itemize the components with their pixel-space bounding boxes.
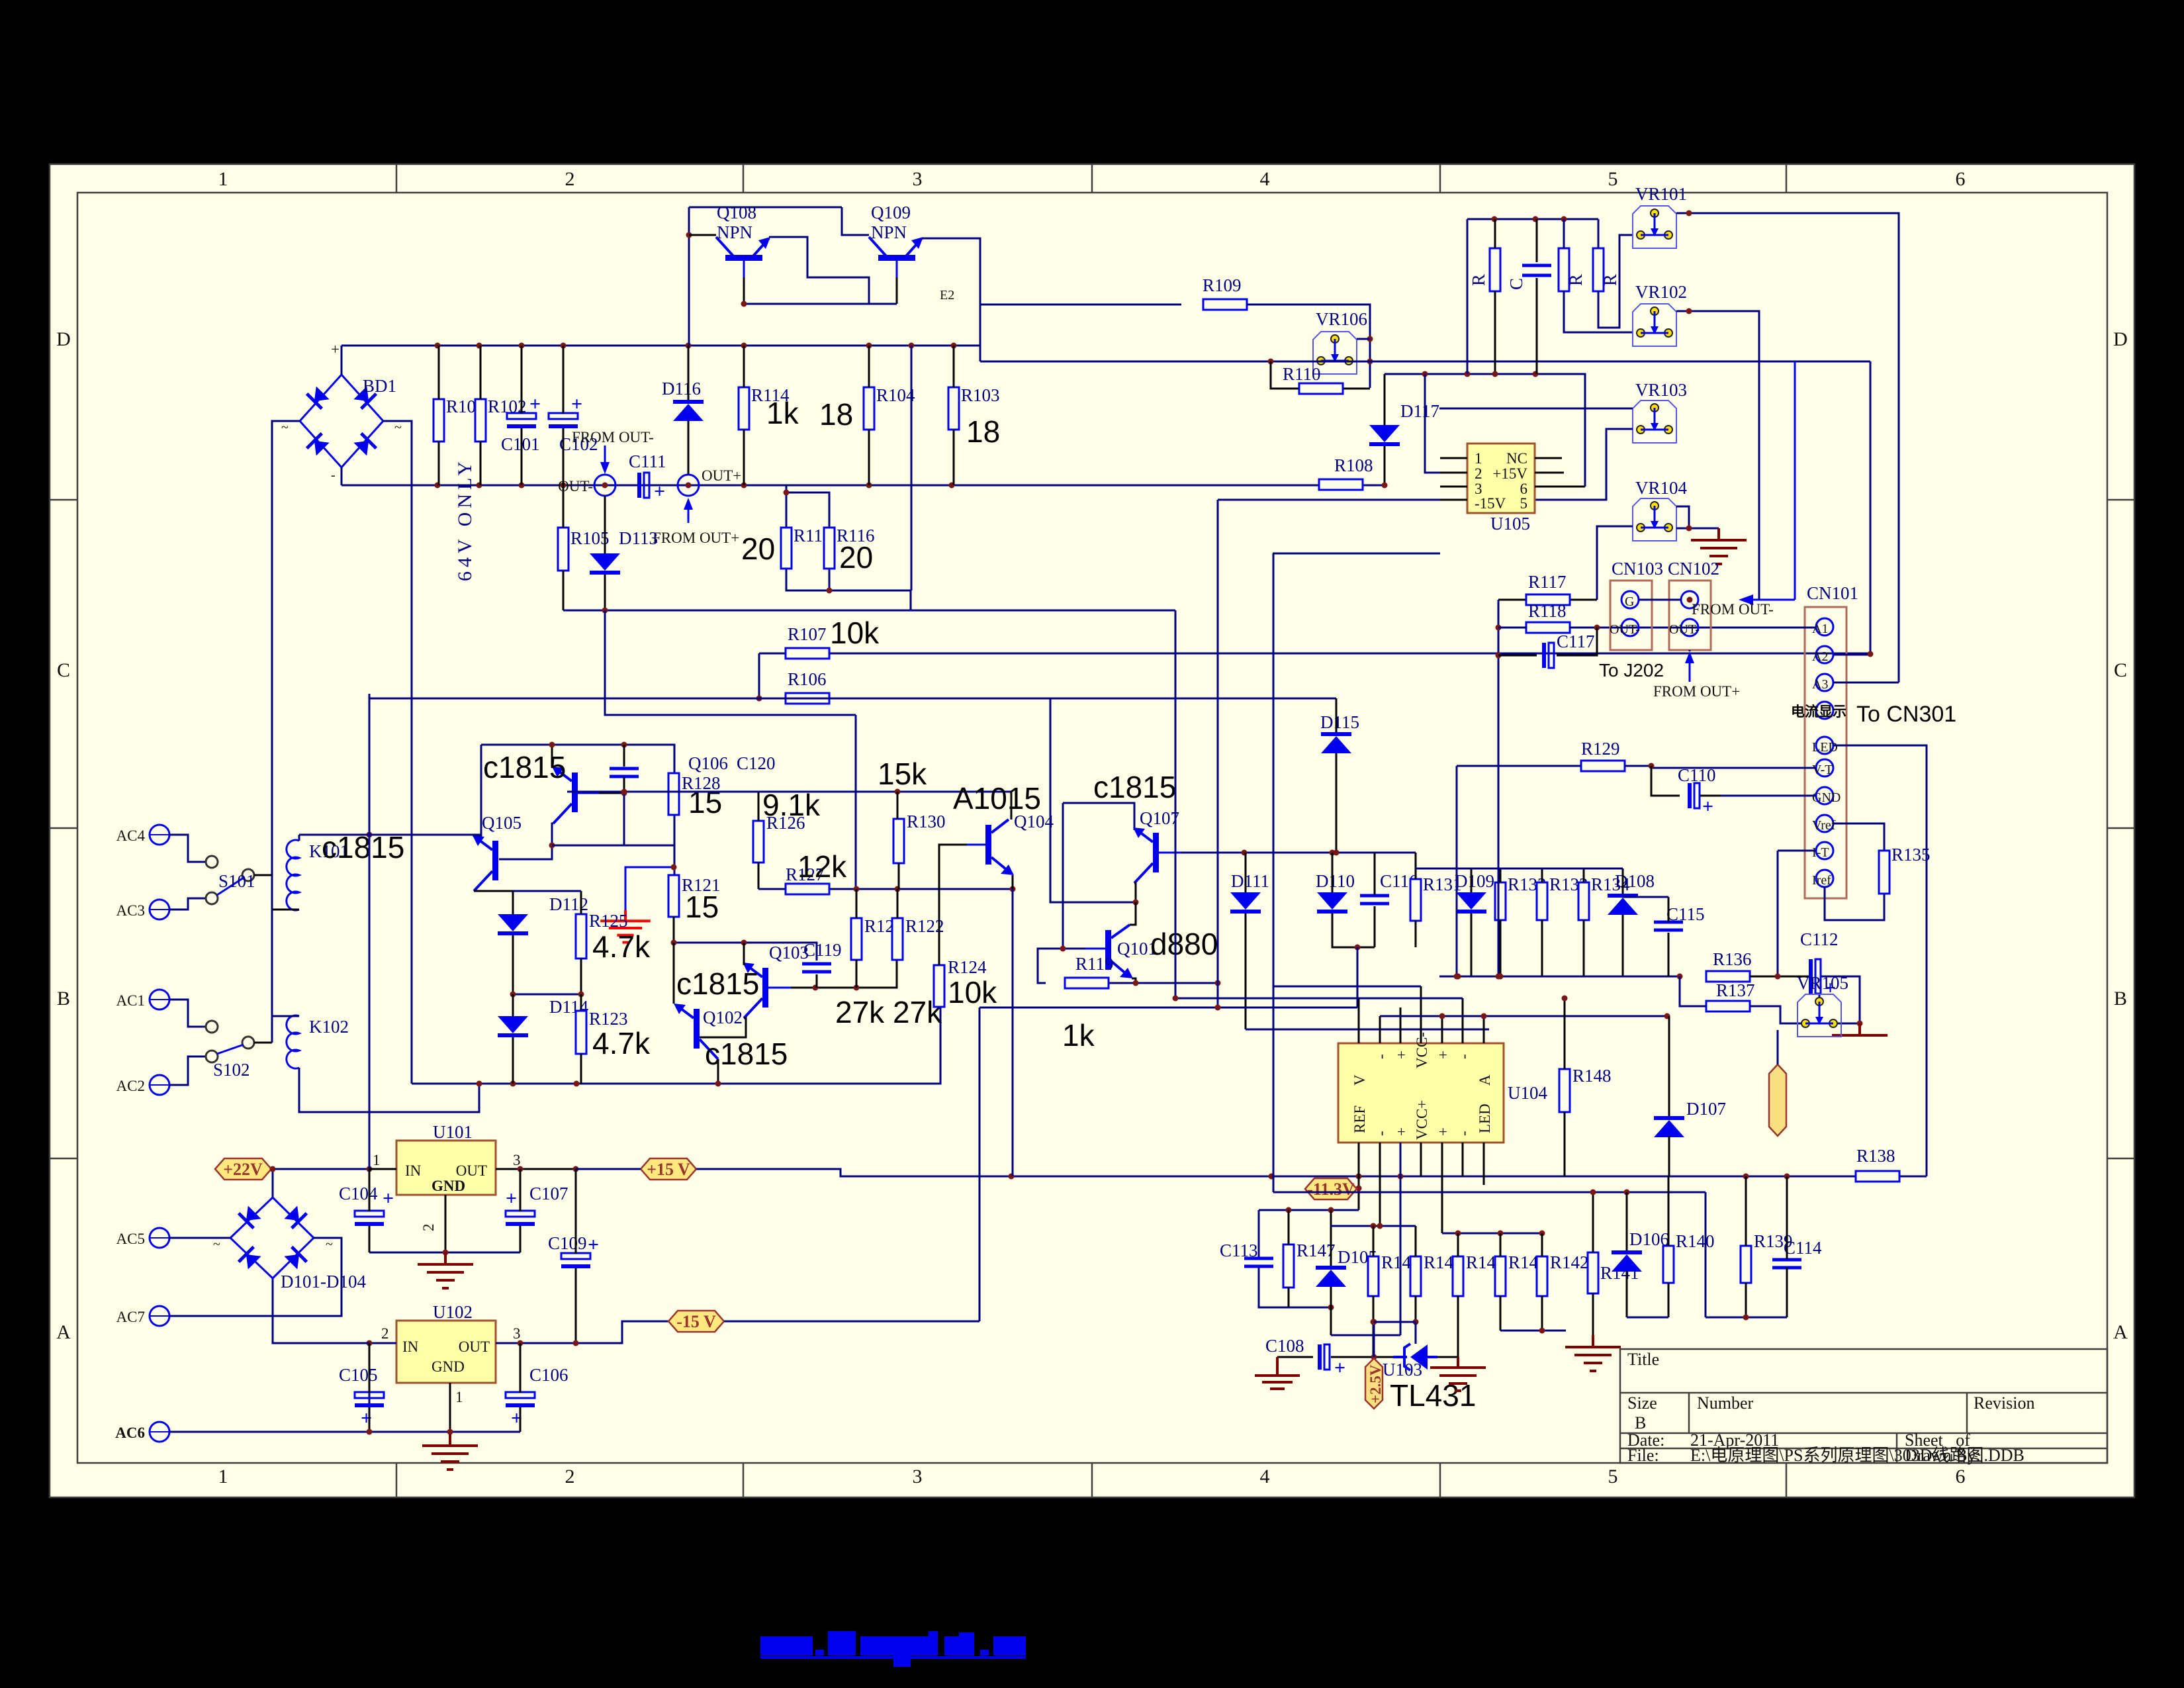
resistor R122 [892,916,944,960]
wire Q108 base down [743,277,745,304]
wire C106 leads [520,1343,522,1432]
svg-text:c1815: c1815 [483,750,566,784]
svg-text:File:: File: [1627,1446,1659,1465]
svg-text:Q102: Q102 [703,1008,743,1027]
wire D106 leads [1626,1192,1628,1317]
port AC3 [150,900,169,919]
capacitor C108 [1265,1336,1345,1379]
junction [895,886,901,892]
wire cn102 down [1689,650,1691,651]
svg-text:6: 6 [1956,1466,1966,1487]
junction [854,985,860,991]
junction [1561,216,1567,222]
resistor R129 [1581,739,1625,771]
svg-text:R124: R124 [948,957,987,977]
svg-text:Q108: Q108 [717,203,756,222]
svg-text:C111: C111 [629,451,666,471]
wire R140 leads [1668,1176,1670,1317]
svg-text:AC1: AC1 [116,992,145,1009]
junction [1539,1328,1545,1334]
wire y1277 [552,793,674,875]
wire C108 gnd wire [1277,1356,1313,1358]
wire C109 leads [575,1169,577,1343]
wire VR106 top to col [1357,338,1370,340]
junction [715,1081,721,1087]
D101-D104 arm diodes [239,1205,307,1270]
junction [519,343,525,349]
svg-text:5: 5 [1608,1466,1618,1487]
svg-text:R129: R129 [1581,739,1620,759]
junction [1496,974,1502,980]
wire Iref link [1825,887,1884,920]
border frame outer [50,164,2134,1497]
wire Q107 base bus [1181,852,1416,854]
wire TL431 anode [1437,1357,1458,1365]
svg-text:C106: C106 [529,1365,569,1385]
capacitor C115 [1654,904,1705,930]
svg-text:To CN301: To CN301 [1856,702,1956,727]
frame column ticks [50,164,2134,1497]
junction [1498,974,1504,980]
junction [1743,1315,1749,1321]
junction [1687,597,1693,603]
svg-text:D: D [56,328,71,350]
junction [270,1166,276,1172]
svg-text:-15V: -15V [1475,495,1506,512]
junction [1009,1174,1015,1180]
wire R147 loop top [1259,1210,1359,1307]
CN101 pin GND [1816,787,1833,804]
junction [1010,886,1016,892]
svg-text:D110: D110 [1316,871,1355,891]
junction [1215,980,1221,986]
svg-text:C119: C119 [803,940,842,960]
junction [510,992,516,998]
svg-text:A2: A2 [1812,649,1828,664]
wire Q108 collector [689,234,716,236]
wire Q107 coll down [1134,883,1136,902]
diode D117 [1369,401,1439,446]
svg-text:C120: C120 [737,753,776,773]
svg-text:R135: R135 [1891,845,1931,865]
junction [518,1340,523,1346]
capacitor C111 [629,451,666,502]
shunt reference U103 TL431 [1393,1344,1437,1370]
wire R122 top [897,889,899,918]
junction [561,343,567,349]
junction [549,843,555,849]
wire Q105 emitter up [473,745,481,835]
wire R147 loop bottom [1289,1307,1331,1309]
junction [1492,216,1498,222]
wire R142 leads [1541,1233,1543,1331]
resistor R144 [1453,1252,1505,1296]
wire y1852 net [1331,1225,1416,1227]
svg-text:C: C [2114,659,2127,681]
resistor R105 [558,528,610,571]
diode D106 [1612,1229,1669,1272]
wire R130 leads [897,792,899,889]
wire U105 left stubs [1440,458,1467,500]
svg-text:Vref: Vref [1812,818,1836,833]
resistor R126 [753,813,805,863]
wire K102 wiring [272,1016,479,1112]
FROM OUT+ arrow [684,498,693,523]
svg-text:+: + [1393,1127,1410,1136]
svg-text:+: + [331,341,340,357]
resistor R132 [1495,874,1547,920]
junction [671,940,677,946]
junction [602,483,608,489]
svg-text:A: A [56,1321,71,1343]
wire C116 col down [1357,947,1359,1008]
wire Q107 box [1063,803,1134,949]
wire R137 wiring [1680,976,1801,1023]
capacitor C106 [506,1365,569,1429]
transistor Q109 [869,237,923,277]
svg-text:VCC+: VCC+ [1414,1100,1430,1140]
junction [951,343,957,349]
svg-text:R109: R109 [1203,275,1242,295]
IC U101 [396,1122,496,1195]
svg-text:Size: Size [1627,1393,1657,1413]
wire R105-D113 bottom [563,610,1175,612]
wire y1424 [674,943,817,961]
junction [756,696,762,702]
wire D114 down [512,1037,514,1084]
wire bridge - to bottom rail [341,467,343,485]
wire R123 down [580,1054,582,1084]
port OUT- [594,475,615,496]
svg-text:2: 2 [565,168,575,190]
wire y1863 net [1442,1233,1542,1235]
wire R145 leads [1415,1226,1417,1344]
svg-text:AC4: AC4 [116,827,146,844]
wire R103 leads [953,346,955,485]
svg-text:+: + [506,1188,517,1209]
junction [671,865,677,870]
wire y1801 net [1273,1192,1706,1194]
svg-text:C115: C115 [1666,904,1705,924]
svg-text:2: 2 [381,1325,389,1342]
junction [1356,1186,1362,1192]
potentiometer VR104 [1633,478,1688,541]
junction [477,1081,482,1087]
junction [1334,850,1340,856]
resistor R top1 [1490,248,1500,291]
svg-text:-: - [1455,1131,1472,1136]
junction [949,483,955,489]
diode D116 [662,379,704,421]
capacitor C119 [802,940,842,972]
transistor Q107 [1133,827,1181,883]
svg-text:C: C [57,659,70,681]
ground [418,1252,473,1288]
svg-text:VR102: VR102 [1635,282,1687,302]
svg-text:1k: 1k [766,396,799,430]
junction [1377,1223,1383,1229]
svg-text:S101: S101 [218,871,255,891]
junction [686,483,692,489]
wire R109 right [1247,305,1370,388]
wire Q101 base [1038,949,1085,983]
wire R120 leads [856,889,858,988]
junction [367,1429,373,1435]
svg-text:1: 1 [1475,450,1482,467]
wire Q109 base down [896,277,898,304]
wire U102 out [496,1321,668,1343]
wire D117 up [1384,374,1386,425]
potentiometer VR105 [1797,973,1848,1037]
junction [1173,996,1179,1002]
wire R148 leads [1564,998,1566,1176]
svg-text:4: 4 [1260,168,1270,190]
wire bottom loops [1331,1143,1566,1335]
junction [621,789,627,795]
svg-text:C117: C117 [1557,632,1595,651]
junction [1533,216,1539,222]
junction [1355,945,1361,951]
wire G link [1639,599,1681,601]
svg-text:~: ~ [213,1237,220,1252]
junction [1455,974,1461,980]
svg-text:3: 3 [913,168,923,190]
FROM OUT- arrow right [1739,361,1795,605]
wire col2201 [1456,766,1458,976]
svg-text:NC: NC [1506,450,1527,467]
capacitor C109 [548,1233,599,1268]
svg-text:c1815: c1815 [1093,770,1176,804]
svg-text:-: - [1373,1054,1389,1059]
wire K101 bottom [272,909,299,911]
svg-text:C101: C101 [501,434,540,454]
bridge rectifier D101-D104 [230,1197,314,1278]
transistor Q102 [674,1004,718,1059]
ground at C108 [1255,1357,1300,1389]
resistor R118 [1526,601,1570,633]
svg-text:U102: U102 [433,1302,473,1322]
wire R104 leads [868,346,870,485]
svg-text:REF: REF [1351,1105,1368,1133]
port AC7 [150,1306,169,1326]
wire U104 top net1 [1175,998,1463,1000]
svg-text:B: B [57,988,70,1009]
svg-text:OUT: OUT [456,1162,487,1179]
BD1 arm diodes [307,385,377,457]
ground at VR105 [1832,1023,1888,1035]
junction [1371,1319,1377,1325]
wire y1125 [481,745,674,773]
svg-text:3: 3 [913,1466,923,1487]
junction [1686,308,1692,314]
wire A3 link [1833,682,1899,684]
wire U105 right stubs [1535,458,1585,487]
junction [573,1340,579,1346]
resistor R102 [475,397,527,442]
inductor K102 [287,1015,349,1068]
junction [1686,211,1692,216]
svg-text:2: 2 [420,1224,437,1232]
svg-text:FROM OUT-: FROM OUT- [572,429,654,445]
wire R106 corner down [369,694,371,835]
junction [686,343,692,349]
junction [866,483,872,489]
IC U105 [1467,444,1535,534]
port AC5 [150,1228,169,1248]
junction [573,1166,579,1172]
junction [1286,1207,1292,1213]
svg-text:D101-D104: D101-D104 [281,1272,366,1291]
svg-text:d880: d880 [1150,927,1218,961]
svg-text:R117: R117 [1528,572,1567,592]
svg-text:Q103: Q103 [769,943,809,962]
junction [1269,1174,1275,1180]
svg-text:IN: IN [405,1162,422,1179]
resistor R141 [1588,1252,1639,1293]
wire R105 leads [563,485,565,610]
wire C107 leads [520,1169,522,1252]
capacitor C114 [1772,1238,1822,1268]
wire bottom bus [412,1007,940,1084]
resistor R137 [1706,980,1755,1011]
svg-text:-: - [331,468,336,483]
junction [741,483,747,489]
ground [1691,528,1747,564]
svg-text:AC2: AC2 [116,1078,145,1094]
junction [741,940,747,946]
svg-text:18: 18 [819,397,853,432]
wire col2153 down [1425,374,1467,473]
svg-text:D109: D109 [1455,871,1494,891]
wire y1555 [1246,1029,1489,1031]
junction [1743,1174,1749,1180]
junction [447,1429,453,1435]
wire left cluster mid bus [513,891,581,994]
wire Q103 emitter up [743,943,745,965]
resistor R133 [1537,874,1588,920]
svg-text:Title: Title [1627,1350,1659,1369]
junction [1677,974,1683,980]
resistor R121 [668,875,721,917]
CN102 pin OUT- [1681,619,1698,636]
junction [549,742,555,748]
junction [866,343,872,349]
capacitor C101 [501,393,541,454]
junction [367,1340,373,1346]
svg-text:4.7k: 4.7k [592,929,651,964]
svg-text:15: 15 [688,785,722,820]
svg-text:+: + [588,1234,599,1256]
wire E2 to R109 [980,304,1181,306]
wire AC2 to S102 [169,1056,206,1085]
net flag +2.5V vertical [1365,1358,1384,1409]
svg-text:GND: GND [432,1178,465,1194]
svg-text:VR105: VR105 [1797,973,1848,993]
svg-text:D115: D115 [1320,712,1359,732]
resistor R106 [786,669,829,704]
svg-text:R140: R140 [1676,1231,1715,1251]
wire +15V rail [696,1169,1927,1176]
wire Q103 coll down [699,1018,746,1037]
wire U101 in [369,1168,396,1170]
junction [909,343,915,349]
svg-text:K102: K102 [309,1017,349,1037]
wire Q106 emitter up [551,745,553,767]
svg-text:Drawn By:: Drawn By: [1905,1446,1981,1465]
svg-text:3: 3 [513,1325,521,1342]
wire U104 top net2 [1380,1015,1669,1017]
resistor R131 [1410,874,1462,921]
yellow vertical flag [1769,1064,1786,1136]
resistor R115 [781,526,832,569]
wire S101 common [254,874,272,876]
CN103 pin G [1621,591,1639,608]
wire C110 right [1700,795,1721,797]
resistor R146 [1368,1252,1420,1296]
svg-text:20: 20 [741,532,775,566]
wire Q104 emitter feed [1012,889,1014,1176]
wire LED link [1833,745,1927,1176]
svg-text:1: 1 [373,1152,381,1168]
svg-text:OUT+: OUT+ [702,467,741,484]
border frame inner [77,193,2107,1463]
svg-text:B: B [1635,1413,1646,1432]
wire AC3 to S101 [169,898,206,910]
port AC4 [150,825,169,845]
wire col 1377 down [911,346,913,590]
resistor R101 [433,397,485,442]
wire VR103 bl to U105 [1535,429,1633,500]
diode D112 [498,894,588,935]
svg-text:18: 18 [966,414,1000,449]
resistor R134 [1578,874,1630,920]
svg-text:+: + [1393,1051,1410,1059]
wire bridge2 out to U102 [273,1278,369,1343]
wire R124 top [938,943,940,965]
diode D105 [1316,1247,1377,1287]
transistor Q108 [716,237,770,277]
wire R129 left [1457,765,1651,767]
wire y1475 bus [1439,976,1787,978]
svg-text:OUT-: OUT- [1669,622,1700,637]
resistor R107 [786,624,829,659]
wire R136 to C112 [1750,976,1809,978]
svg-text:C109: C109 [548,1233,587,1253]
junction [510,1081,516,1087]
wire rail to R108 [1384,445,1386,485]
junction [1367,336,1373,342]
svg-text:BD1: BD1 [363,376,396,396]
junction [1481,1013,1487,1019]
diode D109 [1455,871,1494,914]
svg-text:2: 2 [565,1466,575,1487]
wire Q108 top link [689,207,869,346]
svg-text:A: A [2113,1321,2128,1343]
resistor R109 [1203,275,1247,310]
junction [1413,1319,1419,1325]
ground [1565,1335,1621,1371]
inductor K101 [287,840,349,910]
wire D115 leads [1336,698,1338,853]
junction [1454,974,1460,980]
wire y546 bus [980,361,1870,363]
junction [443,1250,449,1256]
resistor R143 [1495,1252,1547,1296]
wire y1522 net [979,1007,1357,1009]
svg-text:~: ~ [281,420,289,435]
wire S102 common [254,1042,272,1044]
svg-text:Q106: Q106 [688,753,728,773]
